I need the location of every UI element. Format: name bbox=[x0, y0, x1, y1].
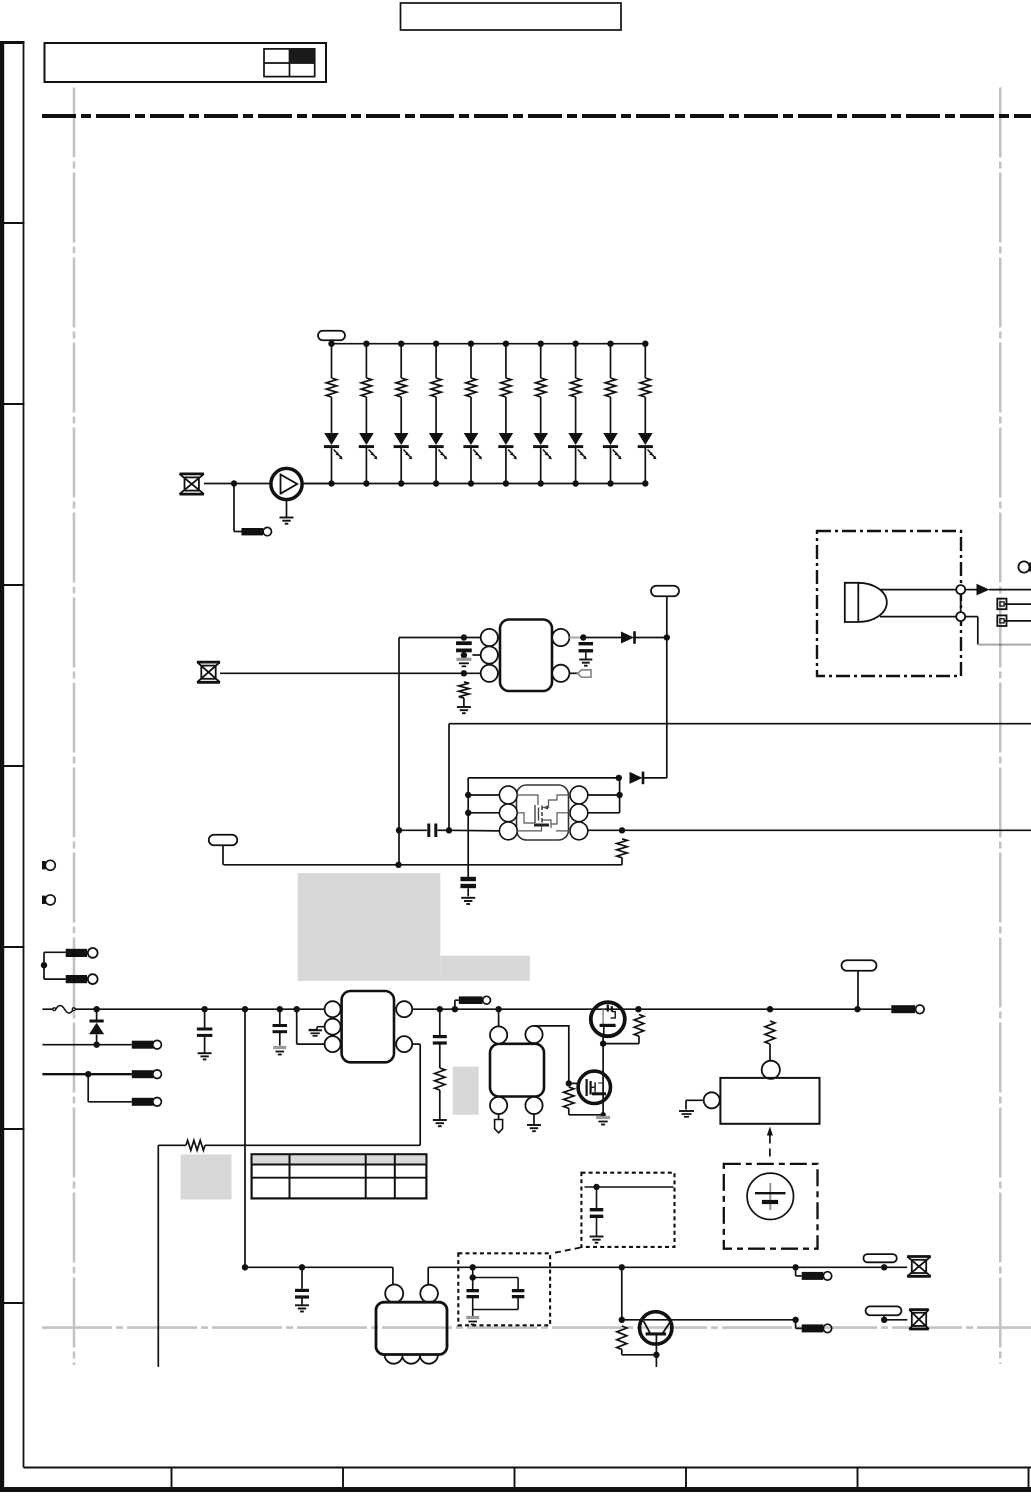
capacitor C4 bbox=[460, 877, 476, 881]
wire branch 5 lower bbox=[470, 447, 472, 483]
connector lug CN8 bbox=[802, 1272, 824, 1280]
fold strip divider 1 bbox=[1, 222, 25, 224]
battery B1 circle bbox=[747, 1173, 793, 1219]
wire C2 to D1 bbox=[583, 637, 621, 639]
transistor Q2 fet circle bbox=[591, 1002, 625, 1036]
wire rail to pill P5 bbox=[796, 1266, 885, 1268]
connector lug CN2 bbox=[132, 1070, 154, 1078]
top dash-dot separator line bbox=[42, 114, 1031, 118]
resistor R9 bbox=[605, 378, 615, 397]
IC U6 body bbox=[376, 1302, 447, 1354]
dotted box 1 bbox=[581, 1173, 674, 1247]
battery B1 positive plate bbox=[755, 1192, 786, 1194]
wire R11 down bbox=[463, 698, 465, 707]
node LED branch 10 bottom bbox=[642, 480, 648, 486]
wire branch 2 upper bbox=[365, 344, 367, 378]
title legend grid bbox=[264, 49, 315, 77]
wire rail right segment bbox=[428, 1266, 795, 1268]
IC U5 pin left bbox=[704, 1092, 720, 1108]
LED D9 bbox=[603, 433, 618, 445]
resistor R17 bbox=[765, 1021, 775, 1044]
node U4 feed bbox=[495, 1006, 501, 1012]
resistor R1 bbox=[326, 378, 336, 397]
wire sensor out top bbox=[880, 589, 956, 591]
bottom band top line bbox=[24, 1467, 1031, 1469]
LED D3 bbox=[394, 433, 409, 445]
table col line 1 bbox=[289, 1154, 291, 1198]
IC U3 body bbox=[342, 991, 394, 1062]
node R12 top bbox=[619, 827, 625, 833]
ground below Q1 bbox=[280, 517, 294, 519]
wire U1 pin3 to X2 bbox=[220, 672, 481, 674]
LED D5 bbox=[464, 433, 479, 445]
wire branch 7 lower bbox=[540, 447, 542, 483]
fold strip divider 6 bbox=[1, 1128, 25, 1130]
node left pair bbox=[41, 962, 47, 968]
battery dash-dot box bbox=[724, 1164, 818, 1249]
signal arrow right bbox=[977, 584, 990, 596]
connector pill P5 bbox=[863, 1254, 896, 1262]
wire C4 down bbox=[467, 888, 469, 896]
page-link symbol X3 bbox=[907, 1255, 931, 1258]
wire rail to X3 bbox=[884, 1266, 907, 1268]
dashed arrow to battery box bbox=[767, 1127, 773, 1136]
page border left black bar bbox=[0, 41, 4, 1492]
node LED branch 7 top bbox=[538, 341, 544, 347]
IC U4 pin 3 bbox=[525, 1097, 542, 1114]
battery B1 negative plate bbox=[762, 1200, 778, 1204]
IC U2 pin 3 bbox=[499, 822, 517, 840]
node R17 top bbox=[767, 1006, 773, 1012]
node Q4 base bbox=[619, 1317, 625, 1323]
IC U6 bottom pin 3 bbox=[420, 1346, 438, 1364]
wire R13 right bbox=[205, 1144, 245, 1146]
wire U1 left vertical bbox=[398, 638, 400, 865]
wire sensor gnd route gray bbox=[978, 644, 1031, 646]
edge circle CN bbox=[1018, 561, 1029, 572]
page-link symbol X4 bbox=[909, 1308, 929, 1311]
node LED branch 5 top bbox=[468, 341, 474, 347]
node bottom rail x245 bbox=[242, 1264, 248, 1270]
node U3 feed bbox=[294, 1006, 300, 1012]
IC U5 body (block) bbox=[720, 1078, 819, 1124]
connector pill P6 bbox=[866, 1306, 902, 1315]
IC U1 pin 3 bbox=[481, 665, 498, 682]
ground C2 bbox=[579, 659, 592, 661]
wire AC left bbox=[42, 1008, 53, 1010]
wire branch 5 upper bbox=[470, 344, 472, 378]
node LED branch 9 top bbox=[607, 341, 613, 347]
table header line bbox=[252, 1164, 427, 1166]
fold strip divider 7 bbox=[1, 1302, 25, 1304]
resistor R10 bbox=[640, 378, 650, 397]
connector pill P3 bbox=[209, 835, 238, 846]
connector pin square 2 bbox=[997, 615, 1006, 626]
wire R12 down bbox=[621, 858, 623, 865]
connector pin square 1 bbox=[997, 599, 1006, 610]
wire branch 10 mid bbox=[644, 397, 646, 433]
shaded region small (table left) bbox=[181, 1155, 232, 1200]
wire branch 7 upper bbox=[540, 344, 542, 378]
left connector pair wires bbox=[44, 951, 66, 953]
wire branch 8 upper bbox=[575, 344, 577, 378]
node U2 pin1 bbox=[465, 792, 471, 798]
transistor Q4 inner bbox=[646, 1332, 667, 1335]
node R11 top bbox=[461, 670, 467, 676]
wire long bus B (to edge) bbox=[587, 829, 1031, 831]
node P5 bbox=[881, 1264, 887, 1270]
LED D6 bbox=[499, 433, 514, 445]
title legend black cell bbox=[290, 49, 315, 63]
battery B1 gray axis bbox=[769, 1183, 771, 1210]
wire P6 stub bbox=[883, 1315, 885, 1320]
wire branch 9 lower bbox=[610, 447, 612, 483]
node Q4 emitter bbox=[653, 1352, 659, 1358]
jumper J1 bbox=[242, 528, 264, 535]
wire U3 pin4 route bbox=[412, 1043, 420, 1045]
wire P4 down bbox=[857, 971, 859, 1010]
IC U2 body bbox=[517, 785, 569, 840]
resistor R14 bbox=[435, 1068, 445, 1090]
node lug stub 3 bbox=[792, 1317, 798, 1323]
resistor R13 bbox=[186, 1140, 205, 1150]
wire Q1 to LED bus bbox=[302, 483, 331, 485]
wire U4 pin3 gnd bbox=[533, 1114, 535, 1125]
capacitor C5 bbox=[204, 1009, 206, 1028]
node P6 bbox=[881, 1317, 887, 1323]
diode D1 bbox=[621, 632, 634, 644]
table col line 3 bbox=[394, 1154, 396, 1198]
IC U6 pin top 1 bbox=[385, 1285, 403, 1303]
wire U5 left gnd bbox=[686, 1099, 704, 1101]
resistor R16 bbox=[634, 1015, 644, 1037]
capacitor C2 bbox=[579, 642, 594, 645]
node Q4 branch bbox=[619, 1264, 625, 1270]
IC U2 pin 2 bbox=[499, 804, 517, 822]
wire branch 6 mid bbox=[505, 397, 507, 433]
bottom band divider 3 bbox=[514, 1468, 516, 1489]
resistor R3 bbox=[396, 378, 406, 397]
table row line bbox=[252, 1177, 427, 1179]
resistor R4 bbox=[431, 378, 441, 397]
wire branch 5 mid bbox=[470, 397, 472, 433]
connector lug CN3 bbox=[132, 1098, 154, 1106]
wire branch 4 mid bbox=[435, 397, 437, 433]
wire Q4 emitter down bbox=[655, 1355, 657, 1367]
node lug stub bbox=[452, 1006, 458, 1012]
wire U4 feed down bbox=[498, 1009, 500, 1026]
wire R15 down bbox=[568, 1108, 570, 1115]
wire branch 3 mid bbox=[400, 397, 402, 433]
wire branch 6 lower bbox=[505, 447, 507, 483]
ground C4 bbox=[461, 897, 475, 899]
wire R18 down bbox=[621, 1349, 623, 1354]
ground U4 pin3 bbox=[527, 1124, 541, 1126]
wire branch 7 mid bbox=[540, 397, 542, 433]
node C1 top bbox=[461, 634, 467, 640]
fold strip divider 5 bbox=[1, 946, 25, 948]
wire feedback row 1145 bbox=[245, 1144, 420, 1146]
wire vertical to D2 row bbox=[666, 638, 668, 778]
wire U1 pin2 bbox=[472, 654, 480, 656]
capacitor C6 bbox=[279, 1009, 281, 1024]
node LED branch 7 bottom bbox=[538, 480, 544, 486]
IC U1 pin 4 bbox=[552, 665, 569, 682]
IC U6 pin top 2 bbox=[420, 1285, 438, 1303]
IC U6 bottom pin 2 bbox=[402, 1346, 420, 1364]
wire D2 cathode bbox=[644, 777, 667, 779]
node C2 top bbox=[580, 634, 586, 640]
wire C2 down bbox=[585, 653, 587, 659]
wire C3 right bbox=[438, 829, 450, 831]
ground Q3 (gray) bbox=[596, 1116, 610, 1119]
node LED branch 2 bottom bbox=[363, 480, 369, 486]
fold line vertical right (gray) bbox=[999, 88, 1002, 1365]
capacitor C10 bbox=[472, 1278, 474, 1290]
wire lug stub 3 bbox=[795, 1320, 797, 1329]
connector lug CN6 bbox=[459, 996, 483, 1004]
node C9 top bbox=[299, 1264, 305, 1270]
Q2 inner glyph bbox=[602, 1009, 604, 1024]
LED D4 bbox=[429, 433, 444, 445]
wire base row into Q4 bbox=[622, 1319, 672, 1321]
node dotted2 rail bbox=[470, 1264, 476, 1270]
wire long vertical x158 bbox=[157, 1145, 159, 1367]
page border inner vertical line bbox=[23, 41, 25, 1468]
left speaker plug 1 bbox=[42, 861, 46, 869]
node LED branch 2 top bbox=[363, 341, 369, 347]
signal ground U3 pin2 bbox=[309, 1027, 325, 1030]
left speaker plug 2 bbox=[42, 896, 46, 904]
wire sensor out bottom bbox=[880, 616, 956, 618]
IC U1 pin 6 bbox=[552, 629, 569, 646]
ground C1 (gray) bbox=[456, 658, 471, 661]
IC U2 pin 6 bbox=[570, 786, 588, 804]
IC U3 pin 5 bbox=[396, 1001, 412, 1017]
node LED branch 6 top bbox=[503, 341, 509, 347]
wire rail to U6 pin b bbox=[427, 1267, 429, 1284]
wire long bus A bbox=[449, 723, 1031, 725]
node LED branch 8 bottom bbox=[572, 480, 578, 486]
wire branch 1 upper bbox=[331, 344, 333, 378]
IC U1 pin 2 bbox=[481, 646, 498, 663]
wire D1 to node bbox=[636, 637, 667, 639]
node rail865 bbox=[395, 862, 401, 868]
wire sensor gnd route bbox=[965, 616, 978, 618]
wire branch 8 mid bbox=[575, 397, 577, 433]
dashed leader line bbox=[551, 1248, 581, 1254]
wire sensor link bbox=[960, 594, 962, 612]
wire R16 bottom bbox=[638, 1036, 640, 1043]
wire X1 to Q1 driver bbox=[204, 483, 271, 485]
IC U6 bottom pin 1 bbox=[385, 1346, 403, 1364]
node dotted2 split bbox=[470, 1274, 476, 1280]
bottom band divider 6 bbox=[1028, 1468, 1030, 1489]
diode D2 bbox=[630, 772, 643, 784]
IC U5 pin top bbox=[762, 1061, 780, 1079]
LED cathode bus bbox=[302, 483, 645, 485]
IC U2 pin 5 bbox=[570, 804, 588, 822]
IR sensor body bbox=[845, 583, 887, 622]
connector lug CN5 bbox=[66, 975, 87, 983]
wire earth line bbox=[42, 1073, 131, 1075]
IC U3 pin 3 bbox=[325, 1036, 341, 1052]
remote sensor dash-dot box bbox=[817, 531, 961, 676]
wire branch 1 lower bbox=[331, 447, 333, 483]
IC U2 inner mosfet bbox=[517, 795, 538, 823]
LED D2 bbox=[359, 433, 374, 445]
node LED branch 9 bottom bbox=[607, 480, 613, 486]
node Q2 source bbox=[600, 1040, 606, 1046]
node U2 pin6 bbox=[616, 792, 622, 798]
LED D1 bbox=[324, 433, 339, 445]
IC U1 pin 1 bbox=[481, 629, 498, 646]
node LED branch 1 bottom bbox=[328, 480, 334, 486]
wire branch 2 mid bbox=[365, 397, 367, 433]
fold strip divider 3 bbox=[1, 584, 25, 586]
Q3 inner glyph bbox=[585, 1079, 587, 1096]
wire Q2Q3 link bbox=[602, 1036, 604, 1072]
wire branch 4 lower bbox=[435, 447, 437, 483]
pin circle sensor bottom bbox=[956, 612, 965, 621]
IC U3 pin 4 bbox=[396, 1036, 412, 1052]
wire U2 pin1 bbox=[468, 794, 499, 796]
connector lug CN1 bbox=[132, 1041, 154, 1049]
node R16 top bbox=[635, 1006, 641, 1012]
fold strip divider 4 bbox=[1, 765, 25, 767]
node LED branch 1 top bbox=[328, 341, 334, 347]
page border strip top cap bbox=[0, 41, 25, 44]
ground C6 (gray) bbox=[273, 1046, 286, 1049]
fold strip divider 2 bbox=[1, 403, 25, 405]
node Q3 source gnd bbox=[600, 1112, 606, 1118]
wire U2 pin6 bbox=[588, 794, 620, 796]
wire U1 pin6 gray seg bbox=[569, 637, 583, 639]
wire base row right bbox=[672, 1319, 796, 1321]
wire lug stub 2 bbox=[795, 1267, 797, 1276]
shaded region small (U4) bbox=[453, 1067, 479, 1115]
wire pill P1 to bus bbox=[331, 340, 333, 344]
ground C5 bbox=[198, 1052, 212, 1054]
wire U3 bottomleft feed bbox=[296, 1009, 298, 1044]
node LED branch 3 bottom bbox=[398, 480, 404, 486]
wire D3 bottom bbox=[96, 1035, 98, 1045]
title box bbox=[45, 43, 327, 82]
wire branch 8 lower bbox=[575, 447, 577, 483]
plug symbol U4 pin2 bbox=[498, 1114, 500, 1119]
wire bottom rail 865 bbox=[224, 864, 623, 866]
resistor R6 bbox=[501, 378, 511, 397]
resistor R8 bbox=[570, 378, 580, 397]
connector pill P2 bbox=[651, 586, 679, 597]
shaded note region big bbox=[298, 873, 441, 981]
ground C10 (gray) bbox=[466, 1316, 479, 1319]
wire AC return bbox=[42, 1044, 131, 1046]
page-link symbol X1 bbox=[179, 472, 204, 475]
wire branch 9 upper bbox=[610, 344, 612, 378]
wire dotted2 stub bbox=[472, 1267, 474, 1277]
node lug stub 2 bbox=[792, 1264, 798, 1270]
node LED branch 4 bottom bbox=[433, 480, 439, 486]
table col line 2 bbox=[365, 1154, 367, 1198]
fold line vertical left (gray) bbox=[73, 88, 76, 1366]
wire U2 left vertical bbox=[467, 778, 469, 877]
capacitor C11 bbox=[512, 1289, 524, 1292]
transistor Q1 driver circle bbox=[271, 468, 302, 499]
resistor R7 bbox=[536, 378, 546, 397]
transistor Q4 circle bbox=[640, 1312, 672, 1344]
node LED branch 10 top bbox=[642, 341, 648, 347]
IC U4 pin 4 bbox=[525, 1026, 542, 1043]
node C3/busA bbox=[446, 827, 452, 833]
wire P3 down bbox=[222, 845, 224, 865]
ground U5 (step) bbox=[679, 1110, 694, 1112]
wire U2 pin2 bbox=[468, 812, 499, 814]
node P4 bbox=[854, 1006, 860, 1012]
ground R14 bbox=[433, 1119, 447, 1121]
node C8 top bbox=[593, 1184, 599, 1190]
pin circle sensor top bbox=[956, 585, 965, 594]
ground C9 bbox=[295, 1304, 309, 1306]
wire to U2 pin3 bbox=[449, 829, 499, 832]
node C3 left bbox=[396, 827, 402, 833]
wire Q3 gate bbox=[569, 1082, 578, 1084]
wire bus A corner down bbox=[448, 724, 450, 831]
node C1 bottom bbox=[461, 652, 467, 658]
fold line horizontal bottom (gray) bbox=[42, 1326, 1031, 1329]
wire Q1 emitter bbox=[286, 500, 288, 517]
dotted box 2 bbox=[458, 1253, 550, 1325]
node LED branch 4 top bbox=[433, 341, 439, 347]
wire dotted1 rail bbox=[585, 1186, 674, 1188]
wire arrow lead bbox=[965, 589, 976, 591]
wire branch 2 lower bbox=[365, 447, 367, 483]
bottom rail left bbox=[245, 1266, 393, 1268]
wire branch 10 upper bbox=[644, 344, 646, 378]
wire C11 branch bbox=[473, 1277, 518, 1279]
wire branch 10 lower bbox=[644, 447, 646, 483]
wire lug stub bbox=[454, 1000, 456, 1009]
node D2 anode rail bbox=[616, 775, 622, 781]
bottom black bar bbox=[0, 1487, 1031, 1492]
connector lug CN7 bbox=[891, 1005, 915, 1013]
IC U2 pin 4 bbox=[570, 822, 588, 840]
node P2/D1 bbox=[664, 634, 670, 640]
ground R11 bbox=[457, 706, 471, 708]
bottom band divider 4 bbox=[685, 1468, 687, 1489]
LED D7 bbox=[533, 433, 548, 445]
wire rail to U6 pin a bbox=[392, 1267, 394, 1284]
AC line fuse squiggle bbox=[53, 1008, 56, 1011]
wire node A down bbox=[233, 484, 235, 532]
bottom band divider 2 bbox=[342, 1468, 344, 1489]
bottom band divider 1 bbox=[171, 1468, 173, 1489]
IC U4 pin 1 bbox=[490, 1026, 507, 1043]
node D3 bottom bbox=[93, 1042, 99, 1048]
transistor Q1 triangle bbox=[280, 474, 282, 495]
capacitor C7 bbox=[439, 1009, 441, 1035]
ground C8 bbox=[590, 1236, 604, 1238]
connector pill P4 bbox=[842, 960, 877, 971]
wire branch 3 upper bbox=[400, 344, 402, 378]
table header fill bbox=[253, 1155, 426, 1164]
wire branch 9 mid bbox=[610, 397, 612, 433]
wire R14 down bbox=[439, 1090, 441, 1120]
transistor Q3 fet circle bbox=[578, 1071, 610, 1103]
resistor R2 bbox=[361, 378, 371, 397]
capacitor C8 bbox=[596, 1187, 598, 1208]
IC U4 pin 2 bbox=[490, 1097, 507, 1114]
